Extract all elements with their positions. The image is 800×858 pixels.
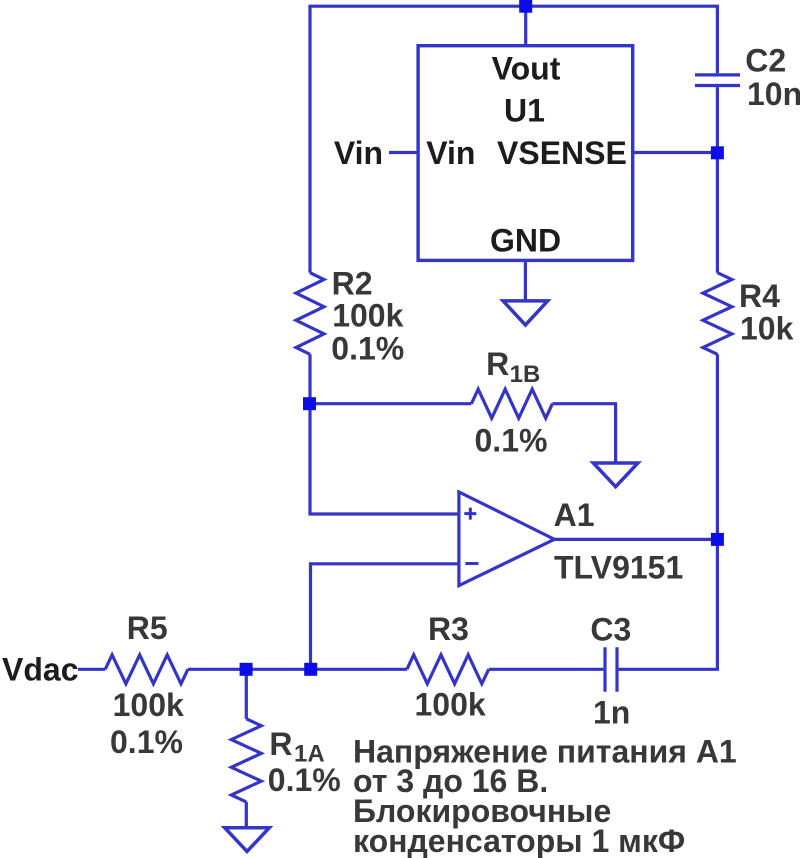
- svg-text:R: R: [486, 346, 509, 382]
- IC U1 box: [418, 46, 633, 261]
- ground below U1: [503, 301, 548, 325]
- svg-text:R: R: [269, 726, 292, 762]
- resistor R1A: [231, 719, 261, 802]
- svg-text:Vout: Vout: [492, 51, 561, 87]
- resistor R2: [296, 273, 324, 355]
- svg-text:Vdac: Vdac: [2, 651, 78, 687]
- op-amp plus marker: [464, 508, 476, 520]
- wire R1B to ground: [552, 404, 615, 463]
- svg-text:10k: 10k: [740, 310, 794, 346]
- capacitor C3: [605, 647, 617, 692]
- wire R3 to C3: [489, 668, 604, 671]
- wire R5 to R3: [188, 668, 407, 671]
- node VSENSE junction: [711, 146, 724, 159]
- node op-amp output junction: [711, 533, 724, 546]
- svg-text:C3: C3: [590, 612, 631, 648]
- resistor R4: [703, 273, 732, 355]
- svg-text:VSENSE: VSENSE: [497, 135, 627, 171]
- svg-text:100k: 100k: [415, 687, 486, 723]
- svg-text:R5: R5: [127, 610, 168, 646]
- svg-text:R3: R3: [428, 611, 469, 647]
- svg-text:1B: 1B: [510, 361, 541, 388]
- op-amp A1 triangle: [459, 492, 555, 586]
- node minus feedback junction: [304, 663, 317, 676]
- svg-text:100k: 100k: [332, 298, 403, 334]
- wire left rail to op-amp + input: [310, 354, 459, 514]
- node top Vout junction: [519, 0, 532, 13]
- svg-text:10n: 10n: [747, 76, 800, 112]
- svg-text:U1: U1: [504, 93, 545, 129]
- svg-text:C2: C2: [745, 43, 786, 79]
- wire VSENSE pin: [633, 151, 718, 154]
- resistor R3: [407, 655, 489, 684]
- svg-text:R4: R4: [739, 278, 780, 314]
- resistor R5: [105, 655, 188, 684]
- svg-text:GND: GND: [490, 222, 561, 258]
- node R1A junction: [240, 663, 253, 676]
- svg-text:0.1%: 0.1%: [110, 724, 183, 760]
- wire R1A to ground: [245, 802, 248, 828]
- svg-text:1n: 1n: [593, 695, 630, 731]
- ground below R1A: [225, 828, 270, 852]
- wire op-amp output: [554, 538, 717, 541]
- wire op-amp - input branch: [311, 564, 459, 670]
- svg-text:0.1%: 0.1%: [268, 762, 341, 798]
- svg-text:0.1%: 0.1%: [331, 330, 404, 366]
- wire R1A branch: [245, 669, 248, 719]
- svg-text:Vin: Vin: [426, 135, 475, 171]
- wire top rail and left+right rail tops: [310, 6, 717, 273]
- wire Vout pin: [524, 6, 527, 46]
- capacitor C2: [695, 75, 740, 86]
- svg-text:A1: A1: [554, 497, 595, 533]
- svg-text:Vin: Vin: [334, 135, 383, 171]
- wire Vdac stub: [78, 668, 105, 671]
- resistor R1B: [471, 389, 552, 418]
- node R1B junction: [303, 397, 316, 410]
- wire Vin stub: [389, 151, 418, 154]
- svg-text:конденсаторы 1 мкФ: конденсаторы 1 мкФ: [353, 823, 685, 858]
- op-amp minus marker: [465, 562, 478, 565]
- wire GND pin: [524, 260, 527, 301]
- svg-text:100k: 100k: [113, 687, 184, 723]
- wire C2 to R4: [716, 87, 719, 273]
- ground below R1B: [593, 463, 638, 487]
- svg-text:0.1%: 0.1%: [475, 423, 548, 459]
- svg-text:R2: R2: [332, 266, 373, 302]
- wire node to R1B: [310, 402, 471, 405]
- wire right rail lower: [619, 354, 718, 669]
- svg-text:TLV9151: TLV9151: [554, 549, 683, 585]
